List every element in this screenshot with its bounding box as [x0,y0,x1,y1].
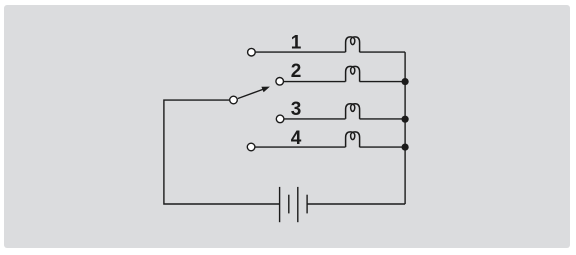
wire: row 3 from contact to lamp [284,118,346,120]
battery short plate (left cell -) [288,195,290,214]
junction node row 3 [402,116,409,123]
wire: row 4 from contact to lamp [255,146,346,148]
switch SW1 rotary arm with arrow toward contact 2 [238,87,270,99]
wire: row 4 from lamp to bus [360,146,406,148]
battery short plate (right cell -) [306,195,308,214]
battery long plate (left cell +) [279,187,281,222]
contact 3 [276,115,284,123]
svg-text:1: 1 [291,33,302,54]
svg-text:4: 4 [291,128,302,149]
switch pivot [230,96,238,104]
svg-text:2: 2 [291,61,302,82]
contact 2 [276,78,284,86]
wire: bottom from battery to right bus [307,203,405,205]
contact 4 [247,143,255,151]
svg-text:3: 3 [291,99,302,120]
contact 1 [248,48,256,56]
lamp L2 [346,66,360,81]
wire: row 2 from contact to lamp [284,81,346,83]
battery long plate (right cell +) [297,187,299,222]
lamp L1 [346,37,360,52]
junction node row 4 [402,144,409,151]
wire: left branch from battery up and to switch pivot [164,100,280,204]
junction node row 2 [402,78,409,85]
battery B1 [280,187,308,222]
wire: row 1 from lamp to bus [360,51,406,53]
lamp L4 [346,132,360,147]
wire: row 1 from contact to lamp [255,51,345,53]
wire: right bus vertical [404,52,406,204]
lamp L3 [346,104,360,119]
wire: row 3 from lamp to bus [360,118,406,120]
wire: row 2 from lamp to bus [360,81,406,83]
